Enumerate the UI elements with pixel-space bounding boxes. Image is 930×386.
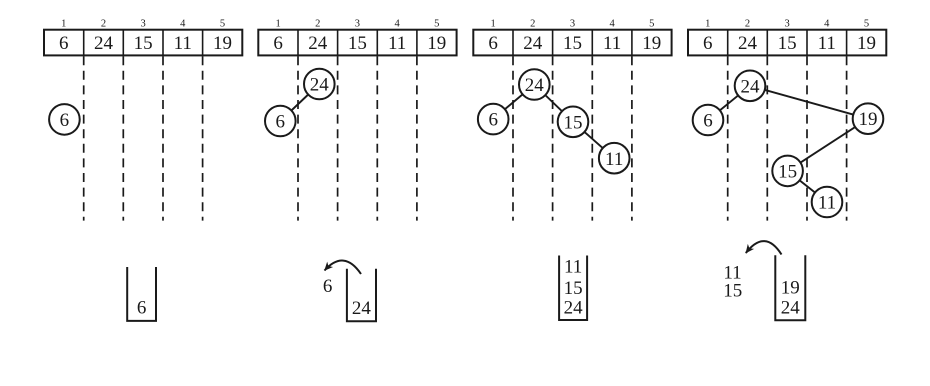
svg-text:24: 24: [310, 75, 330, 96]
svg-text:15: 15: [564, 112, 583, 133]
svg-text:3: 3: [570, 19, 575, 30]
panel 4 tree edge 24-19: [750, 86, 868, 119]
panel 3 array cell value 19: [642, 33, 661, 54]
svg-text:2: 2: [530, 19, 535, 30]
svg-text:1: 1: [61, 19, 66, 30]
panel 3 array cell value 24: [523, 33, 543, 54]
svg-text:6: 6: [323, 276, 333, 297]
svg-text:11: 11: [603, 33, 621, 54]
svg-text:15: 15: [134, 33, 153, 54]
panel 1 dashed guide line 3: [162, 56, 164, 220]
panel 4 tree edge 19-15: [788, 119, 868, 171]
panel 4 popped value 11: [723, 262, 741, 283]
svg-text:5: 5: [434, 19, 439, 30]
panel 1 stack value 6: [137, 298, 147, 319]
svg-text:4: 4: [609, 19, 615, 30]
panel 2 pop arrow: [325, 261, 362, 274]
panel 2 index label 5: [434, 19, 439, 30]
svg-text:24: 24: [781, 298, 801, 319]
panel 2 dashed guide line 3: [376, 56, 378, 220]
svg-text:11: 11: [818, 33, 836, 54]
panel 2 tree edge 6-24: [280, 84, 319, 121]
panel 2 array cell value 15: [348, 33, 367, 54]
svg-text:5: 5: [864, 19, 869, 30]
panel 3 tree edge 15-11: [573, 122, 614, 158]
panel 2 stack value 24: [352, 298, 372, 319]
panel 4 array box: [688, 30, 886, 56]
svg-text:3: 3: [784, 19, 789, 30]
panel 3 index label 2: [530, 19, 535, 30]
svg-text:24: 24: [94, 33, 114, 54]
panel 3 index label 4: [609, 19, 615, 30]
svg-text:6: 6: [488, 110, 498, 131]
panel 2 dashed guide line 1: [297, 56, 299, 220]
panel 1 index label 3: [140, 19, 145, 30]
svg-text:19: 19: [642, 33, 661, 54]
panel 2 dashed guide line 2: [337, 56, 339, 220]
panel 4 array cell value 6: [703, 33, 713, 54]
panel 3 dashed guide line 2: [552, 56, 554, 220]
panel 4 tree node 24: [735, 71, 766, 102]
svg-text:2: 2: [745, 19, 750, 30]
panel 1 array cell value 19: [213, 33, 232, 54]
svg-text:24: 24: [564, 298, 584, 319]
svg-text:4: 4: [394, 19, 400, 30]
panel 2 tree node 24: [304, 69, 335, 100]
panel 4 dashed guide line 3: [806, 56, 808, 220]
svg-text:4: 4: [180, 19, 186, 30]
svg-text:6: 6: [703, 111, 713, 132]
panel 4 pop arrow: [746, 241, 782, 254]
panel 4 array cell value 19: [857, 33, 876, 54]
panel 1 stack outline: [127, 267, 156, 321]
panel 2 index label 4: [394, 19, 400, 30]
panel 3 array cell value 15: [563, 33, 582, 54]
svg-text:11: 11: [564, 257, 582, 278]
svg-text:24: 24: [525, 75, 545, 96]
panel 4 dashed guide line 4: [846, 56, 848, 220]
panel 4 tree edge 6-24: [708, 86, 750, 120]
panel 4 index label 1: [705, 19, 710, 30]
svg-text:6: 6: [137, 298, 147, 319]
panel 3 tree node 11: [599, 143, 630, 174]
panel 4 array cell value 11: [818, 33, 836, 54]
panel 2 array cell value 19: [427, 33, 446, 54]
svg-text:1: 1: [275, 19, 280, 30]
svg-text:3: 3: [355, 19, 360, 30]
svg-text:24: 24: [308, 33, 328, 54]
svg-text:11: 11: [388, 33, 406, 54]
svg-text:15: 15: [778, 162, 797, 183]
panel 3 tree node 24: [519, 69, 550, 100]
panel 3 stack outline: [559, 256, 587, 321]
panel 3 dashed guide line 4: [631, 56, 633, 220]
panel 3 dashed guide line 3: [591, 56, 593, 220]
panel 2 tree node 6: [265, 106, 296, 137]
panel 4 index label 3: [784, 19, 789, 30]
svg-text:5: 5: [220, 19, 225, 30]
svg-text:5: 5: [649, 19, 654, 30]
svg-text:2: 2: [315, 19, 320, 30]
panel 2 array cell value 11: [388, 33, 406, 54]
svg-text:24: 24: [523, 33, 543, 54]
svg-text:6: 6: [703, 33, 713, 54]
panel 1 array cell value 6: [59, 33, 69, 54]
panel 2 array cell value 24: [308, 33, 328, 54]
panel 2 array cell value 6: [273, 33, 283, 54]
panel 3 tree edge 6-24: [493, 85, 534, 120]
svg-text:6: 6: [273, 33, 283, 54]
panel 4 tree edge 15-11: [788, 171, 827, 202]
panel 3 index label 1: [490, 19, 495, 30]
panel 1 index label 4: [180, 19, 186, 30]
panel 4 dashed guide line 2: [766, 56, 768, 220]
panel 3 array cell value 11: [603, 33, 621, 54]
panel 4 dashed guide line 1: [727, 56, 729, 220]
panel 4 tree node 11: [812, 187, 843, 218]
panel 3 tree node 15: [558, 107, 589, 138]
panel 4 index label 2: [745, 19, 750, 30]
panel 3 stack value 24: [564, 298, 584, 319]
panel 3 tree node 6: [478, 104, 509, 135]
svg-text:1: 1: [490, 19, 495, 30]
panel 4 tree node 6: [693, 105, 724, 136]
svg-text:15: 15: [348, 33, 367, 54]
panel 2 index label 3: [355, 19, 360, 30]
svg-text:4: 4: [824, 19, 830, 30]
panel 4 tree node 19: [853, 103, 884, 134]
svg-text:6: 6: [276, 112, 286, 133]
svg-text:19: 19: [213, 33, 232, 54]
svg-text:6: 6: [59, 33, 69, 54]
panel 1 index label 5: [220, 19, 225, 30]
panel 4 stack value 19: [781, 278, 800, 299]
panel 4 stack value 24: [781, 298, 801, 319]
panel 4 stack outline: [775, 255, 805, 320]
panel 3 tree edge 24-15: [534, 85, 573, 122]
svg-text:24: 24: [741, 76, 761, 97]
panel 1 array cell value 11: [174, 33, 192, 54]
panel 1 array cell value 24: [94, 33, 114, 54]
panel 4 index label 4: [824, 19, 830, 30]
svg-text:3: 3: [140, 19, 145, 30]
panel 1 dashed guide line 4: [202, 56, 204, 220]
panel 4 popped value 15: [723, 280, 742, 301]
panel 4 tree node 15: [772, 156, 803, 187]
svg-text:6: 6: [60, 110, 70, 131]
panel 1 dashed guide line 1: [83, 56, 85, 220]
svg-text:6: 6: [488, 33, 498, 54]
panel 3 index label 3: [570, 19, 575, 30]
panel 2 index label 1: [275, 19, 280, 30]
svg-text:15: 15: [723, 280, 742, 301]
svg-text:24: 24: [738, 33, 758, 54]
svg-text:11: 11: [174, 33, 192, 54]
panel 4 array cell value 15: [778, 33, 797, 54]
svg-text:15: 15: [564, 278, 583, 299]
svg-text:11: 11: [605, 149, 623, 170]
svg-text:2: 2: [101, 19, 106, 30]
panel 2 popped value 6: [323, 276, 333, 297]
panel 2 dashed guide line 4: [416, 56, 418, 220]
svg-text:15: 15: [563, 33, 582, 54]
panel 1 tree node 6: [49, 104, 80, 135]
svg-text:15: 15: [778, 33, 797, 54]
panel 3 array cell value 6: [488, 33, 498, 54]
panel 3 stack value 11: [564, 257, 582, 278]
panel 2 array box: [258, 30, 456, 56]
svg-text:24: 24: [352, 298, 372, 319]
svg-text:1: 1: [705, 19, 710, 30]
panel 1 index label 1: [61, 19, 66, 30]
panel 3 index label 5: [649, 19, 654, 30]
panel 1 array box: [44, 30, 242, 56]
panel 4 array cell value 24: [738, 33, 758, 54]
panel 1 index label 2: [101, 19, 106, 30]
panel 2 index label 2: [315, 19, 320, 30]
panel 1 array cell value 15: [134, 33, 153, 54]
panel 3 dashed guide line 1: [512, 56, 514, 220]
panel 3 array box: [473, 30, 671, 56]
panel 4 index label 5: [864, 19, 869, 30]
svg-text:19: 19: [427, 33, 446, 54]
svg-text:19: 19: [781, 278, 800, 299]
svg-text:19: 19: [857, 33, 876, 54]
svg-text:11: 11: [818, 193, 836, 214]
panel 3 stack value 15: [564, 278, 583, 299]
panel 2 stack outline: [347, 269, 376, 322]
panel 1 dashed guide line 2: [122, 56, 124, 220]
svg-text:19: 19: [859, 109, 878, 130]
